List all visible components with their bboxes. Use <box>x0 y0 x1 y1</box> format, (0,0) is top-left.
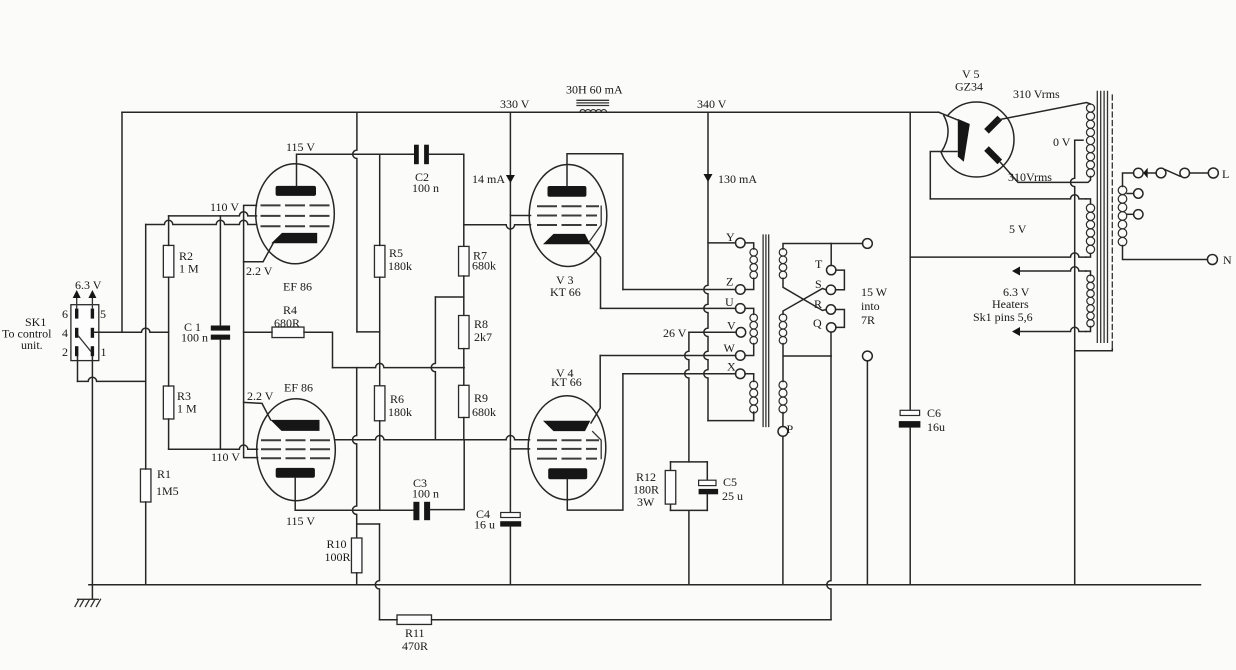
wire: V tap wire from R12 riser (hops 340V drop) <box>689 331 736 333</box>
wire: R8 bottom through R4-net node to R9 top <box>463 349 465 386</box>
output transformer secondary coil S3 <box>779 381 787 413</box>
resistor R9 body <box>459 385 470 417</box>
wire: S3 bottom to P <box>782 413 784 427</box>
svg-text:R11: R11 <box>405 626 425 640</box>
output transformer secondary coil S1 <box>779 249 787 279</box>
switch blade <box>1166 170 1181 176</box>
wire: cathode-bias vertical down to V4 grid wire (hops R4 net wire) <box>431 297 435 440</box>
switch contact circle (right) <box>1180 168 1190 178</box>
wire: coil B bottom to W <box>745 344 754 356</box>
V1 anode <box>276 186 316 196</box>
wire: Y to coil A top <box>745 243 754 249</box>
svg-text:KT 66: KT 66 <box>551 375 582 389</box>
wire: W tap wire from V4 cathode (hops R12 riser and 340V drop) <box>600 355 736 357</box>
wire: link from R7/R8 junction to V3 cathode-bias line <box>435 296 463 298</box>
wire: R7 bottom to R8 top with link junction <box>463 276 465 316</box>
fuse circle <box>1134 168 1144 178</box>
wire B: V1 g3 from corner into tube (hops R2 line, C1 riser, screen drop) <box>146 220 257 224</box>
svg-text:15 W: 15 W <box>861 285 888 299</box>
svg-text:340 V: 340 V <box>697 97 727 111</box>
wire: g3 line of V1 down through R1 to ground rail <box>145 225 147 585</box>
primary tap circle 2 <box>1127 213 1134 215</box>
wire: feedback tap from above R10 to R11 riser (hops ground rail) <box>357 523 380 525</box>
wire: fuse to switch <box>1148 172 1156 174</box>
terminal V <box>736 328 746 338</box>
resistor R3 body <box>163 386 174 419</box>
V4 beam plate connector <box>593 432 602 459</box>
wire: R4-net vertical down to R10 (hops V2 g1 wire, V2 anode wire) <box>353 368 357 538</box>
output terminal (top) <box>863 239 873 249</box>
SK1 pin (middle right) <box>91 328 94 338</box>
output transformer secondary coil S2 <box>779 314 787 344</box>
svg-text:680k: 680k <box>472 259 496 273</box>
svg-text:C6: C6 <box>927 406 941 420</box>
terminal S <box>826 285 835 294</box>
svg-text:R6: R6 <box>390 392 404 406</box>
wire: C1 bottom riser to R3 wire <box>219 340 221 450</box>
heater feed arrows 6.3 V at SK1 pins 5,6 <box>77 296 93 309</box>
R12/C5 network bottom bar and ground lead <box>671 510 708 584</box>
wire: V2 g1 row out to V4 g1 (hops R10 line, R5/R6 line, 330V drop) <box>335 436 529 440</box>
wire: X to coil C top <box>745 374 754 382</box>
wire: bottom anode diagonal to HT winding bottom <box>1001 163 1091 183</box>
svg-text:Z: Z <box>726 275 733 289</box>
V5 anode (bottom) <box>984 146 1002 164</box>
wire: input from SK1 pin 4 to R2/R3 junction (hops g3 line) <box>94 328 169 332</box>
svg-text:100 n: 100 n <box>412 487 439 501</box>
wire: 5V winding bottom to B+ riser (hops 0V drop) <box>910 253 1086 257</box>
svg-text:30H 60 mA: 30H 60 mA <box>566 83 623 97</box>
svg-text:1: 1 <box>101 345 107 359</box>
wire: R4 right lead down and right to R8/R9 node (hops R5/R6 line and R7/R8 link) <box>304 332 333 367</box>
svg-text:5 V: 5 V <box>1009 222 1027 236</box>
wire: R3 bottom lead, right to C1 bottom junction, to V2 g-row (hops V2 cathode line) <box>168 419 170 449</box>
valve V3 KT66 envelope <box>529 165 607 267</box>
svg-text:Heaters: Heaters <box>992 297 1029 311</box>
wire: R5 bottom through feed node to R6 top <box>379 277 381 386</box>
svg-text:310 Vrms: 310 Vrms <box>1013 87 1060 101</box>
V1 grid rows (dashed) <box>261 205 330 226</box>
svg-text:6: 6 <box>62 307 68 321</box>
output transformer primary coil C (anode V4) <box>750 381 758 413</box>
wire: 330V screen drop from rail to C4 (14 mA arrow) <box>509 112 511 512</box>
valve V4 KT66 envelope <box>528 396 606 500</box>
wire: R5 top lead to V1 anode wire <box>379 154 381 245</box>
crossover wires secondary S1 bottom to R, S2 top to S <box>783 278 826 314</box>
terminal N <box>1207 255 1217 265</box>
wire: U to coil B top <box>745 308 754 314</box>
wire: V3 cathode lead down to U wire <box>590 244 600 308</box>
capacitor C6 plates (electrolytic) <box>900 410 920 415</box>
svg-text:EF 86: EF 86 <box>283 280 312 294</box>
svg-text:EF 86: EF 86 <box>284 381 313 395</box>
svg-text:26 V: 26 V <box>663 326 687 340</box>
V3 anode <box>548 186 587 197</box>
svg-text:1 M: 1 M <box>177 402 197 416</box>
svg-text:GZ34: GZ34 <box>955 80 983 94</box>
svg-text:130 mA: 130 mA <box>718 172 757 186</box>
wire: T riser from top wire <box>830 244 832 266</box>
terminal Y <box>736 238 746 248</box>
V5 anode (top) <box>984 116 1002 134</box>
wire: V2 cathode lead to common vertical <box>244 402 271 420</box>
wire: 6.3V winding top lead with arrow to heaters (hops 0V drop) <box>1020 267 1086 271</box>
wire: S2 bottom / S3 top junction to Q riser <box>783 344 831 382</box>
capacitor C4 plates (electrolytic) <box>501 513 521 518</box>
V2 grid rows (dashed) <box>261 440 332 458</box>
svg-text:680k: 680k <box>472 405 496 419</box>
mains HT winding 310-0-310 <box>1086 104 1094 177</box>
wire: Q down through junction (to feedback riser) <box>830 332 832 356</box>
wire: C3 right plate to R9 bottom riser <box>430 440 464 510</box>
resistor R11 body <box>397 615 432 625</box>
svg-text:Sk1 pins 5,6: Sk1 pins 5,6 <box>973 310 1033 324</box>
circle hop arc where filament bottom wire exits (mask circle segment) <box>938 116 949 152</box>
terminal T <box>827 265 836 274</box>
terminal U <box>736 304 746 314</box>
resistor R2 body <box>163 245 174 277</box>
wire: primary top lead to fuse <box>1123 173 1134 187</box>
output transformer primary coil B (cathodes) <box>750 314 758 344</box>
mains primary winding <box>1118 186 1127 246</box>
wire: V1 cathode lead to common vertical <box>244 244 273 262</box>
SK1 pin 5 <box>91 309 94 319</box>
svg-text:1M5: 1M5 <box>156 484 179 498</box>
strap T-S <box>836 270 845 290</box>
wire: V3 screen from 330V drop into tube <box>510 215 530 217</box>
valve V1 EF86 envelope <box>256 164 335 264</box>
wire: B+ into filament top (diagonal) <box>939 112 959 120</box>
wire: C6 riser from B+ rail <box>909 112 911 410</box>
svg-text:R10: R10 <box>327 537 347 551</box>
wire: V4 screen from 330V drop into tube <box>510 448 529 450</box>
svg-text:W: W <box>724 341 736 355</box>
wire: secondary top to output terminal <box>783 244 863 250</box>
SK1 pin 4 <box>75 328 78 338</box>
wire: P to ground rail <box>782 436 784 585</box>
wire: R2 bottom to input node to R3 top <box>168 277 170 386</box>
V4 anode <box>548 468 587 479</box>
switch contact circle (left) <box>1156 168 1166 178</box>
wire: C2 right plate to V3 grid corner <box>429 154 464 246</box>
svg-text:2k7: 2k7 <box>474 330 492 344</box>
terminal R <box>826 305 835 314</box>
capacitor C5 plates (electrolytic) <box>706 462 708 511</box>
wire: link to R5/R6 line <box>357 331 380 333</box>
wire: SK1 pin 2 down and right to g3/R1 line (hops pin1 wire) <box>77 356 79 381</box>
resistor R1 body <box>140 469 151 502</box>
svg-text:X: X <box>727 360 736 374</box>
svg-text:T: T <box>815 257 823 271</box>
svg-text:R9: R9 <box>474 391 488 405</box>
wire: V3 g1 wire from corner into tube (dips under screen drop) <box>464 225 531 229</box>
wire: primary bottom lead to N terminal <box>1123 246 1208 260</box>
ground rail <box>89 584 1201 586</box>
resistor R4 body (screen feed) <box>272 327 304 338</box>
SK1 pin 2 <box>75 346 78 356</box>
wire: R12 riser from V wire down to network top (hops W and X wires) <box>685 332 689 462</box>
resistor R6 body <box>374 386 385 421</box>
wire: R10 bottom to ground rail <box>356 573 358 585</box>
wire: R2 top lead to V1 g1 wire <box>168 216 170 246</box>
connector SK1 box <box>71 305 99 361</box>
wire: SK1 pin 1 down to ground <box>91 356 93 598</box>
mains 6.3V heater winding <box>1087 275 1094 327</box>
svg-text:115 V: 115 V <box>286 140 315 154</box>
wire: U tap wire from V3 cathode (hops 340V drop) <box>601 307 736 309</box>
wire: HT centre tap 0V down to ground rail (hops 310Vrms wire) <box>1075 139 1083 141</box>
output transformer core <box>763 235 769 427</box>
V1 cathode plate <box>271 233 317 243</box>
V3 grid rows (dashed) <box>537 206 599 225</box>
svg-text:P: P <box>787 422 794 436</box>
R12/C5 network top bar <box>671 461 708 463</box>
svg-text:2.2 V: 2.2 V <box>246 264 273 278</box>
terminal Q <box>827 323 836 332</box>
strap R-Q <box>836 310 845 328</box>
svg-text:310Vrms: 310Vrms <box>1008 170 1052 184</box>
capacitor C1 plates <box>211 326 230 331</box>
mains transformer core <box>1097 91 1107 342</box>
svg-text:4: 4 <box>62 326 68 340</box>
svg-text:16 u: 16 u <box>474 518 495 532</box>
resistor R10 body <box>351 538 362 573</box>
wire: R4 left lead to common vertical <box>244 331 272 333</box>
wire: X tap wire from V4 anode (hops R12 riser and 340V drop) <box>623 373 736 375</box>
svg-text:110 V: 110 V <box>210 200 239 214</box>
wire: R6 bottom lead to V2 anode wire <box>379 421 381 510</box>
svg-text:100 n: 100 n <box>181 331 208 345</box>
svg-text:KT 66: KT 66 <box>550 285 581 299</box>
svg-text:V: V <box>727 319 736 333</box>
SK1 pin 6 <box>75 309 78 319</box>
terminal P <box>778 427 788 437</box>
wire: R11 right lead to output secondary junction riser <box>432 619 832 621</box>
valve V2 EF86 envelope <box>257 399 336 501</box>
choke L1 30H 60 mA (core bars) <box>577 100 609 105</box>
svg-text:680R: 680R <box>274 316 300 330</box>
wire: left vertical from B+ rail down to input node <box>121 112 123 332</box>
resistor R7 body <box>459 246 470 276</box>
svg-text:25 u: 25 u <box>722 489 743 503</box>
V3 beam plate connector <box>590 206 602 241</box>
svg-text:R4: R4 <box>283 303 297 317</box>
svg-text:330 V: 330 V <box>500 97 530 111</box>
svg-text:6.3 V: 6.3 V <box>75 278 102 292</box>
primary tap circle 1 <box>1127 193 1134 195</box>
svg-text:Q: Q <box>813 316 822 330</box>
svg-text:180k: 180k <box>388 405 412 419</box>
wire: screen/cathode common vertical (V1 g2 down to V2 g3) <box>244 205 258 457</box>
V2 anode <box>276 468 315 478</box>
terminal X <box>736 369 746 379</box>
svg-text:16u: 16u <box>927 420 945 434</box>
SK1 pin 1 <box>91 346 94 356</box>
svg-text:2.2 V: 2.2 V <box>247 389 274 403</box>
rectifier V5 GZ34 envelope <box>939 102 1014 177</box>
mains transformer electrostatic screen (dashed) <box>1111 95 1113 348</box>
svg-text:R5: R5 <box>389 246 403 260</box>
wire: coil A bottom to Z <box>745 278 754 289</box>
wire: V1 anode riser to 115V node <box>297 154 415 186</box>
wire: C4 bottom to ground rail <box>509 527 511 585</box>
wire: C1 top riser to V1 g1 wire (crosses g3 wire B) <box>219 216 221 326</box>
svg-text:100R: 100R <box>325 550 351 564</box>
svg-text:R1: R1 <box>157 467 171 481</box>
choke L1 coil <box>580 110 606 113</box>
capacitor C3 plates <box>413 502 419 520</box>
svg-text:into: into <box>861 299 880 313</box>
svg-text:180k: 180k <box>388 259 412 273</box>
wire: top anode diagonal to HT winding top <box>998 103 1091 121</box>
mains 5V winding (GZ34 filament) <box>1086 204 1094 254</box>
V4 grid rows (dashed) <box>537 440 599 458</box>
terminal W <box>736 351 746 361</box>
svg-text:5: 5 <box>100 307 106 321</box>
V5 filament/cathode plate <box>958 119 970 162</box>
svg-text:7R: 7R <box>861 313 875 327</box>
svg-text:L: L <box>1222 167 1229 181</box>
svg-text:N: N <box>1223 253 1232 267</box>
wire: R11 left lead <box>380 619 398 621</box>
resistor R5 body <box>374 245 385 277</box>
wire: B+ rail from top-left corner to GZ34 filament <box>122 111 939 113</box>
ground symbol <box>75 599 101 606</box>
wire: V4 anode riser and run to X drop <box>567 374 623 510</box>
resistor R12 body <box>670 462 672 511</box>
output transformer primary coil A (anode V3) <box>750 249 758 279</box>
svg-text:115 V: 115 V <box>286 514 315 528</box>
resistor R8 body <box>459 316 470 349</box>
svg-text:2: 2 <box>62 345 68 359</box>
wire: 6.3V winding bottom lead with arrow to heaters (hops 0V drop) <box>1020 327 1086 331</box>
wire: B+ drop from rail to R5/R6 feed (hops V1 anode wire) <box>353 112 357 332</box>
wire: C6 bottom to ground rail <box>909 428 911 585</box>
svg-text:1 M: 1 M <box>179 262 199 276</box>
wire: V4 cathode lead up to W wire <box>591 356 600 424</box>
terminal Z <box>736 285 746 295</box>
svg-text:110 V: 110 V <box>211 450 240 464</box>
wire: 340V drop from rail to Y junction and down to coil C bottom (130 mA arrow) <box>704 112 708 420</box>
svg-text:0 V: 0 V <box>1053 135 1071 149</box>
svg-text:R8: R8 <box>474 317 488 331</box>
terminal L <box>1208 168 1218 178</box>
capacitor C2 plates <box>414 145 419 165</box>
svg-text:C5: C5 <box>723 475 737 489</box>
wire: screen/0V shelf to ground drop <box>1075 348 1112 351</box>
wire A: V1 g1 from R2 top into tube (hops screen drop) <box>169 212 257 216</box>
wire: V2 anode riser down and right to C3 (hops R10 line) <box>294 478 296 511</box>
V2 cathode plate (inverted) <box>270 420 319 431</box>
wire: filament bottom lead to 5V winding <box>930 195 1086 199</box>
wire: Y tap wire <box>708 242 736 244</box>
svg-text:Y: Y <box>726 230 735 244</box>
V4 cathode plate (inverted) <box>543 421 590 431</box>
svg-text:U: U <box>725 295 734 309</box>
output terminal (bottom) <box>863 351 873 361</box>
wire: coil C bottom down to B+ corner <box>753 413 755 421</box>
SK1 switch contact diagonal pin4 to pin1 <box>78 336 90 351</box>
wire: V3 anode riser and run to Z drop <box>567 154 623 290</box>
wire: switch to L terminal <box>1190 172 1209 174</box>
wire: R9 bottom to V4 grid wire junction <box>463 418 465 440</box>
fuse arrow <box>1143 168 1148 179</box>
V3 cathode plate <box>543 234 590 244</box>
svg-text:unit.: unit. <box>21 338 43 352</box>
wire: bottom output terminal to ground rail <box>866 361 868 585</box>
wire: Z tap wire from V3 anode (hops 340V drop) <box>623 289 736 291</box>
svg-text:100 n: 100 n <box>412 181 439 195</box>
svg-text:470R: 470R <box>402 639 428 653</box>
svg-text:14 mA: 14 mA <box>472 172 505 186</box>
svg-text:3W: 3W <box>637 495 655 509</box>
